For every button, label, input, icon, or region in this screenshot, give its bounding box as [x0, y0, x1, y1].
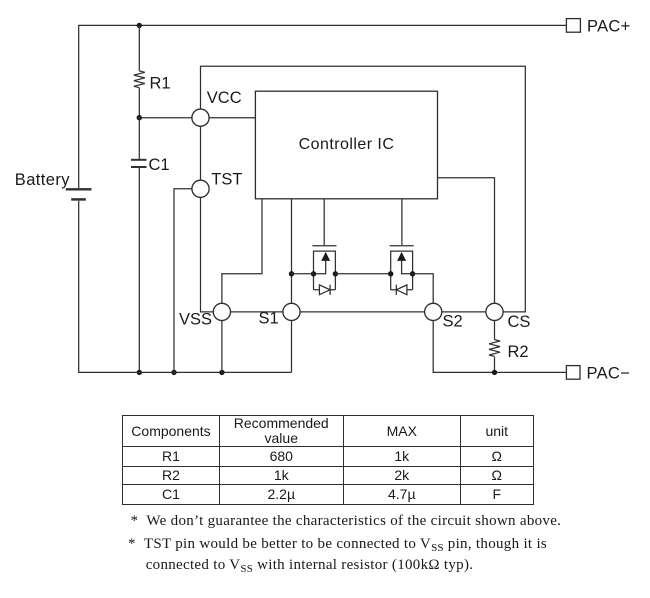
transistor Q1 gate bar — [312, 245, 336, 247]
wire gate 1 from controller — [323, 199, 325, 245]
terminal PAC- square — [566, 366, 580, 380]
pin S2 circle — [425, 303, 442, 320]
svg-text:PAC−: PAC− — [587, 365, 631, 383]
svg-text:VCC: VCC — [207, 89, 242, 107]
wire Q2 to S2 column — [413, 274, 434, 304]
wire Q1 to Q2 — [335, 273, 390, 275]
footnote 2 — [128, 536, 547, 554]
svg-text:TST: TST — [211, 170, 242, 188]
svg-text:Controller IC: Controller IC — [299, 136, 395, 153]
node R2 on PAC- rail — [492, 370, 497, 375]
node Q1 left terminal — [311, 271, 316, 276]
svg-text:CS: CS — [508, 313, 531, 331]
wire TST left branch down to bottom rail — [174, 189, 192, 373]
transistor Q1 bottom edge segments — [314, 289, 336, 291]
pin VCC circle — [192, 109, 209, 126]
wire TST-VSS row: VSS to S1 — [231, 311, 283, 313]
diode D1 body diode of Q1 — [319, 285, 330, 295]
svg-text:R1: R1 — [150, 74, 171, 92]
node Q1 right terminal — [333, 271, 338, 276]
wire S2 down to PAC- rail — [433, 321, 566, 373]
wire VCC pin to TST pin — [200, 126, 202, 180]
wire controller VSS pin path — [222, 199, 262, 303]
wire S1 pin down to bottom rail — [291, 321, 293, 373]
transistor Q1 source arrow — [314, 261, 326, 274]
node Q2 right terminal — [410, 271, 415, 276]
op-amp controller IC box U1 — [255, 91, 437, 199]
pin TST circle — [192, 180, 209, 197]
wire TST bottom to VSS pin — [201, 197, 214, 312]
node junction top rail / R1 column — [137, 23, 142, 28]
wire R2 to bottom rail — [494, 357, 496, 372]
battery negative plate — [71, 198, 86, 201]
battery positive plate — [66, 188, 92, 190]
svg-text:Battery: Battery — [15, 171, 70, 189]
wire C1 column lower — [138, 168, 140, 372]
transistor Q2 body — [391, 251, 413, 290]
wire S1 to S2 — [300, 311, 425, 313]
node C1 on bottom rail — [137, 370, 142, 375]
diode D2 body diode of Q2 — [396, 285, 407, 295]
wire R1 column upper — [138, 25, 140, 71]
wire VSS pin down to bottom rail — [221, 321, 223, 373]
wire C1 column upper — [138, 118, 140, 160]
node TST branch on bottom rail — [171, 370, 176, 375]
wire controller S1 pin path — [291, 199, 293, 303]
svg-text:VSS: VSS — [179, 311, 212, 329]
footnote 3 — [146, 557, 474, 575]
footnote 1 — [131, 513, 562, 530]
transistor Q2 bottom edge segments — [391, 289, 413, 291]
node S1 column / source wire junction — [289, 271, 294, 276]
wire battery to bottom rail — [79, 201, 292, 373]
component value table — [122, 415, 534, 505]
node Q2 left terminal — [388, 271, 393, 276]
svg-text:PAC+: PAC+ — [587, 18, 631, 36]
svg-text:C1: C1 — [149, 156, 170, 174]
capacitor C1 — [131, 159, 147, 161]
wire S1 column to Q1 — [292, 273, 314, 275]
terminal PAC+ square — [566, 19, 580, 33]
transistor Q1 body — [314, 251, 336, 290]
transistor Q2 source arrow — [402, 261, 413, 274]
pin VSS circle — [213, 303, 230, 320]
resistor R2 — [489, 340, 500, 357]
wire controller CS pin path — [438, 178, 495, 303]
pin S1 circle — [283, 303, 300, 320]
wire S2 to CS — [442, 311, 486, 313]
svg-text:S2: S2 — [443, 312, 463, 330]
wire VCC pin to controller IC — [209, 117, 255, 119]
wire VCC node to VCC pin — [139, 117, 192, 119]
node VCC/R1/C1 junction — [137, 115, 142, 120]
pin CS circle — [486, 303, 503, 320]
wire VCC sense loop to CS — [201, 66, 526, 312]
resistor R1 — [134, 71, 145, 88]
wire R1 to VCC node — [138, 88, 140, 118]
wire gate 2 from controller — [401, 199, 403, 245]
svg-text:R2: R2 — [508, 343, 529, 361]
node VSS on bottom rail — [219, 370, 224, 375]
wire top rail from battery to PAC+ — [79, 25, 567, 188]
transistor Q2 gate bar — [390, 245, 414, 247]
wire CS down to R2 — [494, 321, 496, 340]
